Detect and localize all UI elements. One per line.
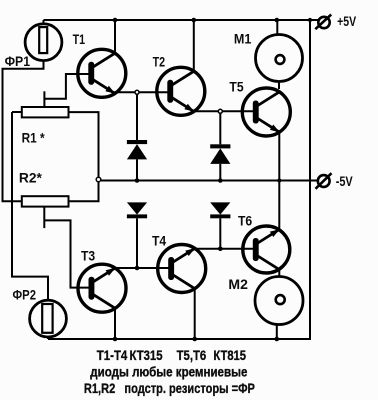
svg-text:R2*: R2*	[19, 170, 43, 186]
svg-text:ФР1: ФР1	[5, 53, 31, 69]
svg-text:Т6: Т6	[238, 213, 252, 229]
svg-text:Т1-Т4: Т1-Т4	[97, 347, 128, 363]
svg-text:Т3: Т3	[81, 247, 95, 263]
svg-text:Т1: Т1	[73, 31, 86, 47]
svg-text:диоды любые кремниевые: диоды любые кремниевые	[90, 364, 247, 380]
svg-text:КТ815: КТ815	[213, 347, 246, 363]
svg-text:М2: М2	[228, 276, 248, 292]
svg-text:КТ315: КТ315	[130, 347, 163, 363]
svg-text:R1 *: R1 *	[22, 129, 45, 145]
svg-text:+5V: +5V	[337, 13, 356, 29]
svg-text:Т5: Т5	[229, 79, 243, 95]
svg-text:ФР2: ФР2	[13, 287, 37, 303]
svg-text:Т5,Т6: Т5,Т6	[177, 347, 207, 363]
svg-text:-5V: -5V	[336, 173, 354, 189]
svg-text:М1: М1	[234, 31, 252, 47]
svg-text:Т4: Т4	[152, 232, 166, 248]
svg-text:R1,R2 подстр. резисторы =ФР: R1,R2 подстр. резисторы =ФР	[84, 380, 255, 396]
svg-text:Т2: Т2	[153, 54, 166, 70]
